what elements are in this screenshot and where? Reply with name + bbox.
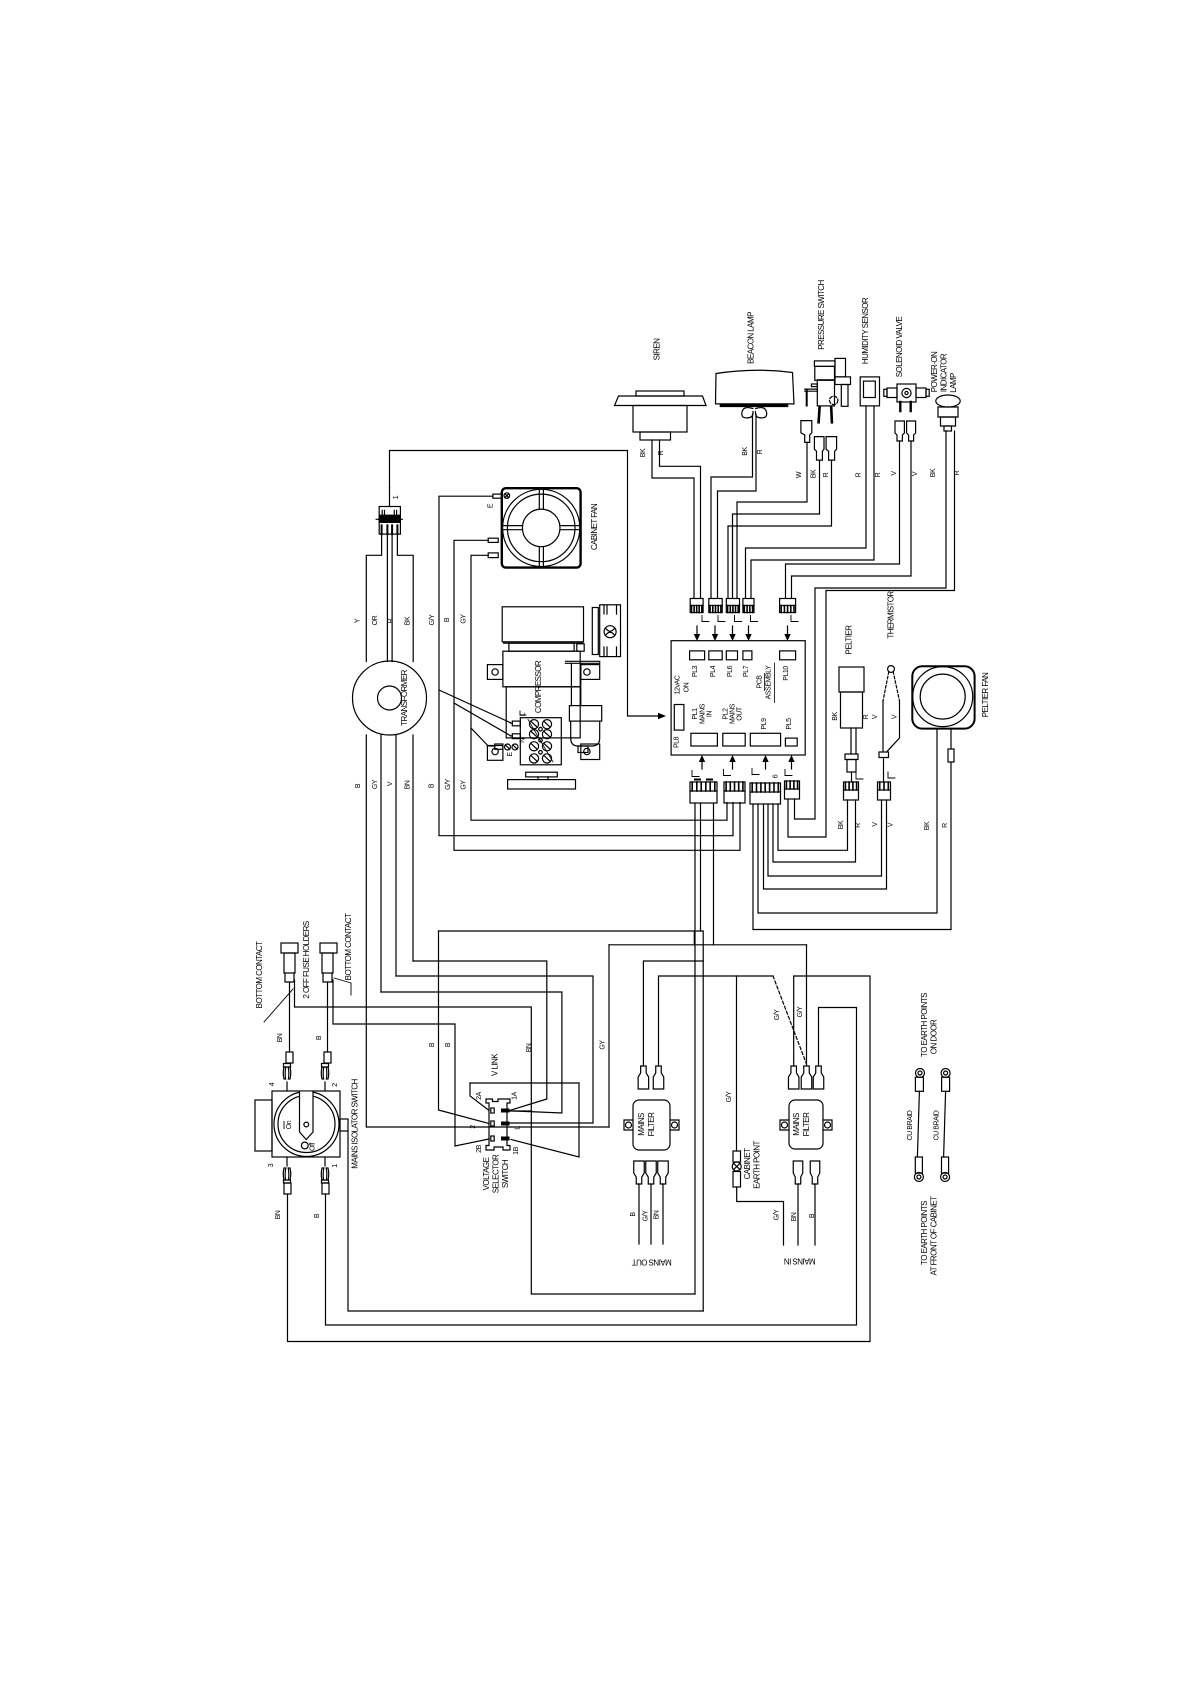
isolator top forks bbox=[283, 1064, 329, 1092]
svg-text:On: On bbox=[286, 1120, 293, 1129]
plug PL6 harness bbox=[726, 599, 741, 642]
svg-text:BK: BK bbox=[930, 468, 937, 477]
peltier fan wires BK,R bbox=[753, 729, 954, 930]
svg-text:TO EARTH POINTS: TO EARTH POINTS bbox=[920, 993, 929, 1057]
fan wires G/Y,B,GY bbox=[429, 496, 741, 850]
compressor accumulator bbox=[569, 663, 601, 752]
thermistor plug bbox=[872, 782, 895, 827]
svg-text:COMPRESSOR: COMPRESSOR bbox=[534, 660, 543, 713]
svg-text:N: N bbox=[519, 738, 526, 743]
svg-text:1: 1 bbox=[393, 495, 400, 499]
svg-text:G/Y: G/Y bbox=[774, 1009, 781, 1020]
lamp wires BK,R to PL5 bbox=[788, 431, 961, 837]
svg-text:GY: GY bbox=[461, 614, 468, 624]
beacon wires BK,R bbox=[711, 414, 764, 598]
svg-text:INDICATOR: INDICATOR bbox=[940, 353, 949, 392]
filter2 top fastons bbox=[788, 1066, 823, 1089]
svg-text:GY: GY bbox=[461, 780, 468, 790]
svg-text:MAINS: MAINS bbox=[700, 703, 707, 724]
wire PL1 pin3 G/Y net bbox=[367, 804, 807, 1127]
svg-text:L: L bbox=[515, 1126, 522, 1130]
siren bbox=[615, 338, 707, 440]
V link bbox=[470, 1053, 579, 1157]
filter2 bottom fastons + mains in bbox=[784, 1161, 820, 1266]
wire connector1 to PCB PL8 (arrow) bbox=[390, 451, 667, 720]
svg-text:G/Y: G/Y bbox=[445, 778, 452, 789]
wire V net to L bbox=[396, 976, 593, 1123]
svg-text:G/Y: G/Y bbox=[726, 1091, 733, 1102]
svg-text:BN: BN bbox=[791, 1212, 798, 1221]
svg-text:SIREN: SIREN bbox=[653, 338, 662, 360]
plug PL1 harness bbox=[690, 755, 717, 803]
svg-text:PL4: PL4 bbox=[710, 665, 717, 677]
svg-text:2 OFF FUSE HOLDERS: 2 OFF FUSE HOLDERS bbox=[302, 921, 311, 998]
svg-text:BK: BK bbox=[811, 469, 818, 478]
svg-text:PRESSURE SWITCH: PRESSURE SWITCH bbox=[817, 279, 826, 349]
svg-text:PL8: PL8 bbox=[673, 736, 680, 748]
solenoid fastons + wires V,V bbox=[786, 421, 920, 598]
wire filter1 feeds bbox=[526, 961, 807, 1151]
svg-text:PL7: PL7 bbox=[743, 665, 750, 677]
svg-text:VOLTAGE: VOLTAGE bbox=[482, 1157, 491, 1190]
PCB assembly box bbox=[671, 641, 805, 755]
svg-text:SOLENOID VALVE: SOLENOID VALVE bbox=[895, 317, 904, 378]
mains filter 2 bbox=[780, 1100, 832, 1149]
svg-text:PL10: PL10 bbox=[783, 666, 790, 681]
svg-text:PL3: PL3 bbox=[692, 665, 699, 677]
wire PL1 pin1 B net bbox=[439, 804, 704, 1311]
compressor bbox=[487, 605, 620, 738]
plug PL7 harness bbox=[743, 599, 758, 642]
fuse bottom contact wires bbox=[295, 980, 696, 1294]
svg-text:PL2: PL2 bbox=[723, 708, 730, 720]
svg-text:R: R bbox=[954, 470, 961, 475]
svg-text:BK: BK bbox=[924, 821, 931, 830]
svg-text:R: R bbox=[856, 472, 863, 477]
pressure switch fastons + wires W,BK,R bbox=[728, 421, 837, 598]
svg-text:W: W bbox=[796, 471, 803, 478]
svg-text:FILTER: FILTER bbox=[647, 1112, 656, 1136]
svg-text:TRANSFORMER: TRANSFORMER bbox=[400, 669, 409, 726]
svg-text:4: 4 bbox=[269, 1082, 276, 1086]
svg-text:BEACON LAMP: BEACON LAMP bbox=[747, 312, 756, 364]
thermistor bbox=[872, 591, 900, 782]
svg-text:MAINS: MAINS bbox=[637, 1113, 646, 1136]
svg-text:PL6: PL6 bbox=[727, 665, 734, 677]
plug PL5 harness bbox=[785, 755, 800, 799]
pressure switch bbox=[805, 279, 851, 422]
svg-text:R: R bbox=[823, 472, 830, 477]
svg-text:BN: BN bbox=[275, 1210, 282, 1219]
wire GY net to 1A bbox=[381, 992, 562, 1113]
svg-text:ON DOOR: ON DOOR bbox=[930, 1019, 939, 1054]
earth braid 2 bbox=[934, 1069, 951, 1182]
solenoid valve bbox=[884, 317, 929, 411]
svg-text:G/Y: G/Y bbox=[797, 1006, 804, 1017]
humidity wires R,R bbox=[746, 406, 883, 598]
fuse holder labels bbox=[255, 913, 353, 1042]
svg-text:GY: GY bbox=[600, 1040, 607, 1050]
cabinet fan bbox=[488, 488, 599, 567]
svg-text:BK: BK bbox=[405, 616, 412, 625]
connector 1 bbox=[376, 488, 402, 535]
svg-text:MAINS: MAINS bbox=[792, 1113, 801, 1136]
power-on indicator lamp bbox=[930, 351, 960, 431]
svg-text:R: R bbox=[658, 450, 665, 455]
svg-text:THERMISTOR: THERMISTOR bbox=[887, 591, 896, 639]
svg-text:POWER-ON: POWER-ON bbox=[930, 351, 939, 392]
svg-text:CABINET FAN: CABINET FAN bbox=[590, 503, 599, 550]
svg-text:1: 1 bbox=[332, 1164, 339, 1168]
svg-text:MAINS: MAINS bbox=[730, 703, 737, 724]
svg-text:PL9: PL9 bbox=[761, 718, 768, 730]
wire BN net to 1A bbox=[413, 961, 547, 1111]
svg-text:BK: BK bbox=[742, 447, 749, 456]
svg-text:MAINS OUT: MAINS OUT bbox=[632, 1258, 672, 1267]
compressor terminal box bbox=[520, 718, 561, 765]
siren wires BK,R bbox=[640, 440, 701, 598]
svg-text:LAMP: LAMP bbox=[949, 373, 958, 393]
svg-text:2A: 2A bbox=[476, 1091, 483, 1099]
svg-text:2B: 2B bbox=[476, 1144, 483, 1152]
svg-text:PL5: PL5 bbox=[786, 718, 793, 730]
voltage selector switch bbox=[470, 1091, 522, 1193]
cabinet earth point bbox=[732, 1141, 783, 1245]
fuse holder right bbox=[320, 943, 337, 1063]
svg-text:R: R bbox=[875, 472, 882, 477]
svg-text:2: 2 bbox=[332, 1083, 339, 1087]
svg-text:G/Y: G/Y bbox=[429, 614, 436, 625]
svg-text:G/Y: G/Y bbox=[774, 1209, 781, 1220]
svg-text:Off: Off bbox=[310, 1143, 317, 1151]
filter1 top fastons bbox=[638, 1066, 664, 1089]
svg-text:BOTTOM CONTACT: BOTTOM CONTACT bbox=[344, 913, 353, 980]
plug PL10 harness bbox=[780, 599, 798, 642]
svg-text:PL1: PL1 bbox=[692, 708, 699, 720]
svg-text:PELTIER FAN: PELTIER FAN bbox=[981, 672, 990, 717]
svg-text:1B: 1B bbox=[513, 1146, 520, 1154]
svg-text:1A: 1A bbox=[512, 1091, 519, 1099]
fuse holder left bbox=[281, 943, 298, 1063]
svg-text:PELTIER: PELTIER bbox=[845, 625, 854, 655]
svg-text:R: R bbox=[757, 449, 764, 454]
svg-text:HUMIDITY SENSOR: HUMIDITY SENSOR bbox=[861, 297, 870, 364]
svg-text:MAINS ISOLATOR SWITCH: MAINS ISOLATOR SWITCH bbox=[351, 1078, 360, 1168]
svg-text:BN: BN bbox=[405, 780, 412, 789]
svg-text:BOTTOM CONTACT: BOTTOM CONTACT bbox=[255, 941, 264, 1008]
svg-text:BK: BK bbox=[640, 448, 647, 457]
transformer bbox=[353, 661, 427, 735]
transformer leads Y,OR,R,BK bbox=[355, 534, 414, 661]
compressor base bbox=[487, 744, 599, 789]
svg-text:IN: IN bbox=[707, 711, 714, 717]
svg-text:2: 2 bbox=[470, 1125, 477, 1129]
humidity sensor bbox=[860, 297, 879, 406]
earth notes bbox=[920, 993, 939, 1276]
svg-text:TO EARTH POINTS: TO EARTH POINTS bbox=[920, 1201, 929, 1265]
svg-text:BK: BK bbox=[832, 712, 839, 721]
svg-text:BN: BN bbox=[654, 1210, 661, 1219]
svg-text:3: 3 bbox=[268, 1163, 275, 1167]
svg-text:OR: OR bbox=[372, 615, 379, 625]
svg-text:CU BRAID: CU BRAID bbox=[934, 1110, 941, 1140]
svg-text:R: R bbox=[863, 714, 870, 719]
svg-text:12vAC: 12vAC bbox=[675, 675, 682, 694]
svg-text:CU BRAID: CU BRAID bbox=[907, 1110, 914, 1140]
svg-text:ON: ON bbox=[684, 682, 691, 692]
svg-text:R: R bbox=[388, 618, 395, 623]
svg-text:GY: GY bbox=[372, 779, 379, 789]
peltier fan bbox=[912, 666, 990, 728]
beacon lamp bbox=[716, 312, 795, 418]
svg-text:SWITCH: SWITCH bbox=[501, 1159, 510, 1188]
earth braid 1 bbox=[907, 1069, 925, 1182]
peltier bbox=[832, 625, 870, 782]
plug PL9 harness bbox=[750, 755, 781, 804]
svg-text:MAINS IN: MAINS IN bbox=[784, 1257, 816, 1266]
plug PL4 harness bbox=[709, 599, 725, 642]
svg-text:6: 6 bbox=[773, 774, 780, 778]
svg-text:PCB: PCB bbox=[757, 675, 764, 689]
svg-text:SELECTOR: SELECTOR bbox=[492, 1154, 501, 1193]
plug PL2 harness bbox=[724, 755, 746, 803]
mains isolator switch bbox=[255, 1078, 360, 1168]
PL9 fanout wires bbox=[764, 800, 887, 889]
svg-text:FILTER: FILTER bbox=[802, 1112, 811, 1136]
svg-text:CABINET: CABINET bbox=[743, 1148, 752, 1179]
plug PL3 harness bbox=[690, 599, 709, 642]
svg-text:OUT: OUT bbox=[737, 706, 744, 721]
svg-text:BN: BN bbox=[277, 1033, 284, 1042]
mains filter 1 bbox=[624, 1100, 679, 1150]
filter1 bottom fastons + mains out bbox=[630, 1161, 672, 1267]
svg-text:AT FRONT OF CABINET: AT FRONT OF CABINET bbox=[930, 1196, 939, 1276]
transformer leads B,GY,V,BN bbox=[355, 735, 413, 1127]
svg-text:ASSEMBLY: ASSEMBLY bbox=[766, 665, 773, 699]
svg-text:BK: BK bbox=[838, 820, 845, 829]
isolator bottom forks + wires bbox=[275, 976, 870, 1342]
svg-text:BN: BN bbox=[526, 1043, 533, 1052]
peltier plug bbox=[838, 782, 862, 829]
svg-text:EARTH POINT: EARTH POINT bbox=[753, 1141, 762, 1189]
compressor terminals L,N,E bbox=[487, 711, 526, 757]
svg-text:V LINK: V LINK bbox=[491, 1053, 500, 1076]
svg-text:R: R bbox=[942, 823, 949, 828]
svg-text:G/Y: G/Y bbox=[643, 1210, 650, 1221]
